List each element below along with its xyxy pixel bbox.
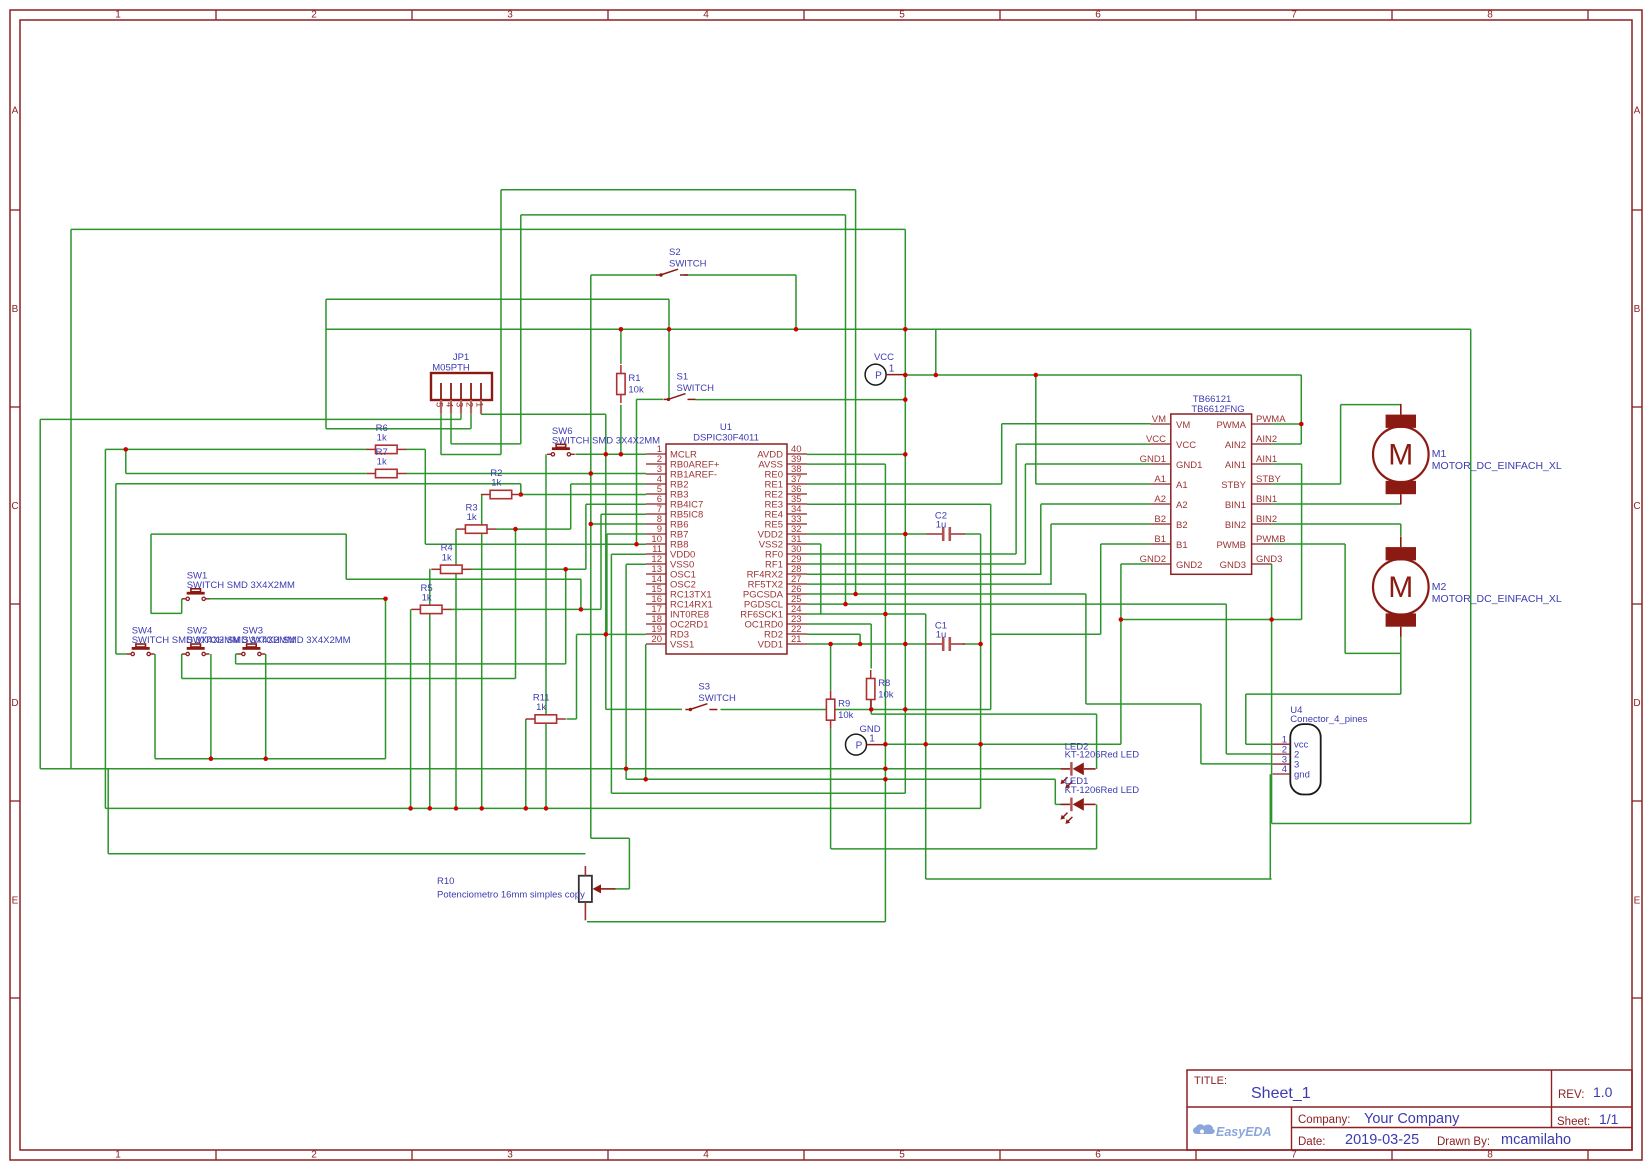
svg-text:1u: 1u — [936, 630, 947, 641]
wires group — [40, 190, 1471, 922]
wire (990.7,504.2)-(990.7,709.5) — [990, 504, 992, 709]
junction at (871.2,709.4) — [869, 707, 874, 712]
wire (480.9,414.2)-(605.8,414.2) — [481, 413, 606, 415]
wire (1271.6,524.0)-(1400.8,524.0) — [1272, 523, 1401, 525]
svg-text:1/1: 1/1 — [1599, 1111, 1619, 1127]
svg-text:B: B — [1634, 304, 1641, 315]
junction at (410.6,808.4) — [408, 806, 413, 811]
wire (807,564.0)-(1025.4,564.0) — [807, 563, 1025, 565]
resistor R1 — [617, 365, 644, 403]
svg-text:2019-03-25: 2019-03-25 — [1345, 1132, 1419, 1148]
wire (606.9,534.0)-(606.9,634.4) — [606, 534, 608, 634]
wire (962.7,644.0)-(980.6,644.0) — [963, 643, 981, 645]
svg-text:1: 1 — [115, 1150, 121, 1161]
wire (566.5,719.0)-(576.5,719.0) — [567, 718, 577, 720]
wire (546.0,454.3)-(546.0,808.4) — [545, 454, 547, 808]
svg-text:5: 5 — [434, 402, 445, 407]
wire (1001.7,423.8)-(1001.7,484.0) — [1001, 424, 1003, 484]
wire (645.7,644.2)-(645.7,779.3) — [645, 644, 647, 779]
wire (871.2,699.3)-(871.2,714.1) — [870, 699, 872, 714]
resistor R6 — [366, 423, 406, 454]
wire (40.2,419.4)-(461.0,419.4) — [40, 418, 461, 420]
svg-text:3: 3 — [454, 402, 465, 407]
svg-text:A: A — [12, 106, 19, 117]
wire (845.5,214.9)-(845.5,604.1) — [845, 215, 847, 604]
svg-text:R9: R9 — [838, 699, 850, 710]
wire (105.4,449.4)-(366.5,449.4) — [105, 448, 366, 450]
junction at (855.6,594) — [853, 592, 858, 597]
svg-text:1u: 1u — [936, 520, 947, 531]
wire (807,454.4)-(905.3,454.4) — [807, 453, 905, 455]
svg-text:mcamilaho: mcamilaho — [1501, 1132, 1571, 1148]
wire (807,534.0)-(926.6,534.0) — [807, 533, 927, 535]
svg-text:PWMB: PWMB — [1216, 540, 1246, 551]
junction at (925.7,744.3) — [923, 742, 928, 747]
wire (481.0,413.8)-(481.0,414.2) — [480, 413, 482, 415]
wire (520.8,214.9)-(520.8,443.9) — [520, 215, 522, 444]
wire (629.4,838.2)-(629.4,888.9) — [628, 838, 630, 889]
wire (1120.9,564.0)-(1150.6,564.0) — [1121, 563, 1151, 565]
wire (807,594.0)-(1085.9,594.0) — [807, 593, 1086, 595]
svg-text:U1: U1 — [720, 422, 732, 433]
svg-text:1k: 1k — [467, 512, 477, 523]
resistor R4 — [431, 543, 471, 574]
wire (1400.8,637.0)-(1400.8,653.4) — [1400, 637, 1402, 653]
wire (980.6,644.0)-(980.6,744.3) — [980, 644, 982, 744]
wire (1025.4,464.0)-(1025.4,564.0) — [1024, 464, 1026, 564]
wire (807,574.2)-(1041.4,574.2) — [807, 573, 1041, 575]
svg-text:1k: 1k — [377, 432, 387, 443]
svg-text:1.0: 1.0 — [1593, 1084, 1613, 1100]
svg-text:P: P — [856, 741, 863, 752]
svg-text:E: E — [12, 896, 19, 907]
junction at (525.8,808.4) — [524, 806, 529, 811]
svg-text:BIN1: BIN1 — [1225, 500, 1246, 511]
junction at (210.9,758.7) — [209, 756, 214, 761]
wire (1271.6,424.0)-(1301.3,424.0) — [1272, 423, 1302, 425]
svg-text:6: 6 — [1095, 10, 1101, 21]
wire (590.8,838.2)-(629.4,838.2) — [591, 837, 630, 839]
svg-text:B2: B2 — [1176, 520, 1188, 531]
wire (1120.9,619.5)-(1301.6,619.5) — [1121, 619, 1302, 621]
wire (1271.6,464.0)-(1301.6,464.0) — [1272, 463, 1302, 465]
junction at (905.3,709.4) — [903, 707, 908, 712]
svg-text:M: M — [1388, 571, 1413, 604]
wire (1340.6,404.6)-(1340.6,484.0) — [1340, 405, 1342, 484]
wire (71,229.4)-(905.3,229.4) — [71, 228, 905, 230]
switch S1 — [664, 371, 715, 401]
junction at (605.8,454.3) — [604, 452, 609, 457]
wire (1040.8,504.0)-(1150.6,504.0) — [1041, 503, 1151, 505]
svg-text:D: D — [1633, 698, 1640, 709]
wire (605.8,414.2)-(605.8,709.4) — [605, 414, 607, 709]
switch SW3 — [238, 626, 351, 656]
wire (346.2,579.3)-(581.2,579.3) — [346, 578, 581, 580]
wire (855.6,189.7)-(855.6,594.0) — [855, 190, 857, 594]
junction at (265.7,758.7) — [263, 756, 268, 761]
wire (585.9,504.2)-(585.9,569.3) — [585, 504, 587, 569]
svg-text:AIN1: AIN1 — [1256, 454, 1277, 465]
wire (470.0,569.3)-(585.9,569.3) — [470, 568, 586, 570]
svg-text:A2: A2 — [1176, 500, 1188, 511]
wire (1200.9,763.9)-(1272.6,763.9) — [1201, 763, 1273, 765]
junction at (429.8,808.4) — [428, 806, 433, 811]
svg-text:Drawn By:: Drawn By: — [1437, 1136, 1490, 1148]
wire (575.4,454.3)-(646.0,454.3) — [575, 453, 646, 455]
svg-text:4: 4 — [703, 1150, 709, 1161]
capacitor C2 — [927, 511, 966, 542]
wire (885.4,464.1)-(885.4,921.8) — [884, 464, 886, 922]
svg-text:GND2: GND2 — [1140, 554, 1166, 565]
wire (925.7,879.0)-(1271.6,879.0) — [926, 878, 1272, 880]
svg-text:M05PTH: M05PTH — [432, 363, 470, 374]
wire (326,329.3)-(1470.7,329.3) — [326, 328, 1471, 330]
wire (450.4,609.4)-(601.0,609.4) — [450, 608, 601, 610]
wire (1340.6,404.6)-(1400.8,404.6) — [1341, 404, 1401, 406]
wire (326,299.2)-(669,299.2) — [326, 298, 669, 300]
wire (695.5,399.6)-(905.3,399.6) — [696, 399, 906, 401]
wire (115.9,483.8)-(520.8,483.8) — [116, 483, 521, 485]
junction at (620.9,454.3) — [619, 452, 624, 457]
wire (326.0,428.8)-(470.6,428.8) — [326, 428, 471, 430]
wire (980.6,744.3)-(980.6,808.4) — [980, 744, 982, 808]
svg-text:M1: M1 — [1432, 448, 1447, 460]
junction at (796,329.3) — [794, 327, 799, 332]
wire (871.2,624.0)-(871.2,668.5) — [870, 624, 872, 669]
wire (925.7,614.0)-(925.7,744.3) — [925, 614, 927, 744]
svg-text:7: 7 — [1291, 10, 1297, 21]
wire (807,584.1)-(1051.8,584.1) — [807, 583, 1052, 585]
LED LED1 — [1061, 798, 1096, 824]
resistor R8 — [867, 670, 894, 708]
junction at (830.6,644) — [828, 642, 833, 647]
svg-text:BIN2: BIN2 — [1225, 520, 1246, 531]
junction at (385.5,598.8) — [383, 597, 388, 602]
wire (125.8,473.5)-(366.2,473.5) — [126, 473, 366, 475]
wire (807,484.0)-(1001.7,484.0) — [807, 483, 1002, 485]
svg-text:1: 1 — [869, 734, 875, 745]
wire (980.6,534.0)-(980.6,644.0) — [980, 534, 982, 644]
wire (590.8,275.0)-(590.8,838.2) — [590, 275, 592, 838]
title block — [1187, 1070, 1632, 1150]
wire (108.2,853.8)-(585.4,853.8) — [108, 853, 585, 855]
wire (820.8,544.0)-(820.8,614.2) — [820, 544, 822, 614]
wire (576.5,634.4)-(576.5,719.0) — [576, 634, 578, 719]
junction at (590.8,524) — [589, 522, 594, 527]
svg-text:AIN1: AIN1 — [1225, 460, 1246, 471]
wire (611.4,793.2)-(905.3,793.2) — [611, 792, 905, 794]
junction at (636.5,544.2) — [634, 542, 639, 547]
wire (1085.9,594.0)-(1085.9,704.0) — [1085, 594, 1087, 704]
svg-text:2: 2 — [311, 10, 317, 21]
wire (501.0,189.7)-(501.0,454.5) — [500, 190, 502, 455]
svg-text:GND3: GND3 — [1220, 560, 1246, 571]
wire (871.2,714.1)-(1096.6,714.1) — [871, 713, 1096, 715]
wire (235.6,654.0)-(237.9,654.0) — [236, 653, 238, 655]
wire (807,464.1)-(885.4,464.1) — [807, 463, 885, 465]
junction at (125.8,449.4) — [124, 447, 129, 452]
wire (105.4,808.4)-(980.6,808.4) — [105, 807, 980, 809]
wire (346.2,534.1)-(346.2,579.3) — [345, 534, 347, 579]
wire (615.5,888.9)-(629.4,888.9) — [616, 888, 630, 890]
wire (611.4,554.3)-(611.4,793.2) — [610, 554, 612, 793]
wire (590.8,524.0)-(646.0,524.0) — [591, 523, 646, 525]
svg-text:2: 2 — [464, 402, 475, 407]
wire (235.6,654.0)-(235.6,663.9) — [235, 654, 237, 664]
capacitor C1 — [927, 621, 966, 652]
wire (210.9,654.0)-(210.9,758.7) — [210, 654, 212, 759]
svg-text:21: 21 — [791, 634, 802, 645]
junction at (1120.9,619.5) — [1119, 617, 1124, 622]
svg-text:R8: R8 — [878, 678, 890, 689]
svg-text:MOTOR_DC_EINFACH_XL: MOTOR_DC_EINFACH_XL — [1432, 593, 1562, 605]
wire (481.7,494.5)-(481.7,808.4) — [481, 495, 483, 809]
wire (1100.7,544.0)-(1100.7,634.2) — [1100, 544, 1102, 634]
wire (385.5,598.8)-(385.5,758.7) — [385, 599, 387, 759]
EasyEDA logo — [1193, 1124, 1215, 1134]
wire (1001.7,423.8)-(1150.6,423.8) — [1002, 423, 1151, 425]
wire (1226.3,754.0)-(1272.6,754.0) — [1226, 753, 1272, 755]
svg-text:4: 4 — [444, 402, 455, 407]
wire (461.0,413.8)-(461.0,419.4) — [460, 414, 462, 420]
svg-text:PWMA: PWMA — [1216, 420, 1246, 431]
wire (576.5,634.4)-(646.0,634.4) — [577, 633, 647, 635]
motor M1 — [1373, 404, 1562, 505]
svg-text:A2: A2 — [1154, 494, 1166, 505]
wire (830.6,644.0)-(830.6,690.7) — [830, 644, 832, 691]
wire (181.7,598.8)-(181.7,613.4) — [181, 599, 183, 614]
switch S2 — [656, 247, 707, 277]
junction at (885.4,779.3) — [883, 777, 888, 782]
wire (520.8,494.5)-(646.0,494.5) — [521, 494, 646, 496]
junction at (520.8,494.5) — [519, 492, 524, 497]
wire (40.2,768.8)-(1060.9,768.8) — [40, 768, 1061, 770]
wire (1400.8,653.4)-(1400.8,694.1) — [1400, 653, 1402, 694]
junction at (885.4,768.8) — [883, 767, 888, 772]
junction at (885.4,744.3) — [883, 742, 888, 747]
junction at (1035.8,375) — [1034, 373, 1039, 378]
wire (601.0,514.2)-(601.0,609.4) — [600, 514, 602, 609]
wire (684.0,275.0)-(796.0,275.0) — [684, 274, 796, 276]
wire (601.0,514.2)-(646.0,514.2) — [601, 513, 646, 515]
svg-text:EasyEDA: EasyEDA — [1216, 1125, 1272, 1139]
svg-text:A: A — [1634, 106, 1641, 117]
resistor R5 — [411, 583, 451, 614]
wire (1016.1,444.1)-(1016.1,554.0) — [1015, 444, 1017, 554]
svg-text:GND3: GND3 — [1256, 554, 1282, 565]
svg-text:M2: M2 — [1432, 581, 1447, 593]
wire (570.7,484.0)-(646.0,484.0) — [571, 483, 646, 485]
wire (1051.0,524.0)-(1150.6,524.0) — [1051, 523, 1151, 525]
svg-text:E: E — [1634, 896, 1641, 907]
wire (1470.7,329.3)-(1470.7,823.5) — [1470, 329, 1472, 823]
svg-text:DSPIC30F4011: DSPIC30F4011 — [693, 433, 759, 444]
junction at (565.7,569.3) — [563, 567, 568, 572]
wire (150.7,613.4)-(181.7,613.4) — [151, 612, 182, 614]
svg-text:A1: A1 — [1176, 480, 1188, 491]
svg-text:B: B — [12, 304, 19, 315]
wire (441.0,413.8)-(441.0,454.5) — [440, 414, 442, 455]
wire (425.3,449.4)-(425.3,544.2) — [424, 449, 426, 544]
wire (807,644.0)-(926.8,644.0) — [807, 643, 927, 645]
svg-text:Your Company: Your Company — [1364, 1111, 1460, 1127]
svg-text:1k: 1k — [422, 592, 432, 603]
wire (520.8,214.9)-(845.5,214.9) — [521, 214, 846, 216]
wire (209.5,598.8)-(385.5,598.8) — [210, 598, 386, 600]
resistor R2 — [481, 468, 521, 499]
wire (1271.6,564.0)-(1271.6,619.5) — [1271, 564, 1273, 620]
junction at (905.3,375) — [903, 373, 908, 378]
wire (1085.9,704.0)-(1200.9,704.0) — [1086, 703, 1201, 705]
wire (620.9,329.3)-(620.9,364.0) — [620, 329, 622, 364]
IC TB6612FNG — [1140, 394, 1287, 574]
wire (1035.8,375.0)-(1035.8,484.0) — [1035, 375, 1037, 484]
wire (1096.6,804.4)-(1096.6,848.9) — [1096, 804, 1098, 849]
wire (1100.7,544.0)-(1150.6,544.0) — [1101, 543, 1151, 545]
svg-text:AIN2: AIN2 — [1256, 434, 1277, 445]
wire (580.9,579.3)-(580.9,609.4) — [580, 579, 582, 609]
wire (1096.6,714.1)-(1096.6,768.9) — [1096, 714, 1098, 769]
resistor R9 — [826, 691, 853, 729]
wire (155.0,654.0)-(155.0,758.7) — [154, 654, 156, 759]
svg-text:STBY: STBY — [1221, 480, 1246, 491]
wire (590.8,275.0)-(656.5,275.0) — [591, 274, 657, 276]
svg-text:S1: S1 — [677, 371, 689, 382]
wire (796.0,275.0)-(796.0,329.3) — [795, 275, 797, 329]
wire (125.8,449.4)-(125.8,473.5) — [125, 449, 127, 473]
svg-text:SWITCH: SWITCH — [698, 693, 736, 704]
svg-text:C: C — [11, 501, 18, 512]
junction at (620.9,329.3) — [619, 327, 624, 332]
switch SW1 — [182, 570, 295, 600]
junction at (580.9,609.4) — [579, 607, 584, 612]
wire (1245.8,694.1)-(1400.8,694.1) — [1246, 693, 1401, 695]
svg-text:1k: 1k — [442, 552, 452, 563]
svg-text:Potenciometro 16mm simples cop: Potenciometro 16mm simples copy — [437, 890, 585, 901]
wire (456.0,529.1)-(456.0,808.4) — [455, 529, 457, 808]
wire (1120.9,564.0)-(1120.9,744.3) — [1120, 564, 1122, 744]
junction at (905.3,399.6) — [903, 397, 908, 402]
wire (501,189.7)-(855.6,189.7) — [501, 189, 856, 191]
junction at (845.5,604.1) — [843, 602, 848, 607]
wire (925.7,744.3)-(925.7,879.0) — [925, 744, 927, 879]
svg-text:10k: 10k — [878, 690, 894, 701]
wire (720.5,709.5)-(990.7,709.5) — [721, 709, 991, 711]
wire (105.4,449.4)-(105.4,808.4) — [104, 449, 106, 808]
wire (115.9,654.0)-(127.2,654.0) — [116, 653, 127, 655]
wire (860.1,634.2)-(860.1,644.0) — [859, 634, 861, 644]
wire (935.8,329.3)-(935.8,375.0) — [935, 329, 937, 375]
wire (605.8,709.4)-(682.0,709.4) — [606, 708, 682, 710]
svg-text:8: 8 — [1487, 10, 1493, 21]
svg-text:4: 4 — [703, 10, 709, 21]
svg-text:5: 5 — [899, 10, 905, 21]
resistor R7 — [366, 447, 406, 478]
LED LED2 — [1061, 762, 1096, 788]
wire (626.1,779.3)-(1055.3,779.3) — [626, 778, 1055, 780]
svg-text:B1: B1 — [1154, 534, 1166, 545]
svg-text:1: 1 — [474, 402, 485, 407]
wire (1016.1,444.1)-(1150.6,444.1) — [1016, 443, 1151, 445]
wire (265.7,654.0)-(265.7,758.7) — [265, 654, 267, 759]
svg-text:SWITCH SMD 3X4X2MM: SWITCH SMD 3X4X2MM — [187, 580, 295, 591]
wire (155.0,758.7)-(385.5,758.7) — [155, 758, 386, 760]
wire (831.0,848.9)-(1096.6,848.9) — [831, 848, 1097, 850]
wire (150.7,613.4)-(150.7,613.4) — [150, 612, 152, 614]
svg-text:B2: B2 — [1154, 514, 1166, 525]
svg-text:1k: 1k — [377, 457, 387, 468]
switch SW6 — [547, 426, 660, 456]
svg-text:S3: S3 — [698, 682, 710, 693]
wire (429.8,568.8)-(429.8,808.4) — [429, 569, 431, 809]
connector U4 Conector_4_pines — [1273, 705, 1368, 795]
wire (1025.4,464.0)-(1150.6,464.0) — [1025, 463, 1150, 465]
wire (1301.6,464.0)-(1301.6,619.5) — [1301, 464, 1303, 620]
svg-text:GND2: GND2 — [1176, 560, 1202, 571]
junction at (860.1,644) — [858, 642, 863, 647]
svg-text:R10: R10 — [437, 876, 454, 887]
svg-text:GND: GND — [859, 724, 880, 735]
wire (636.3,399.4)-(663.0,399.4) — [636, 398, 663, 400]
wire (425.3,544.2)-(646.0,544.2) — [425, 543, 646, 545]
wire (905.3,375.0)-(1301.3,375.0) — [905, 374, 1301, 376]
svg-text:20: 20 — [651, 634, 662, 645]
svg-text:4: 4 — [1282, 764, 1287, 775]
wire (1271.6,444.0)-(1301.3,444.0) — [1272, 443, 1302, 445]
wire (1271.6,544.0)-(1345.1,544.0) — [1272, 543, 1346, 545]
svg-text:SWITCH: SWITCH — [669, 259, 707, 270]
wire (515.5,529.1)-(515.5,678.5) — [515, 529, 517, 678]
junction at (456,808.4) — [454, 806, 459, 811]
wire (1200.9,704.0)-(1200.9,763.9) — [1200, 704, 1202, 764]
svg-text:VCC: VCC — [1176, 440, 1196, 451]
motor M2 — [1373, 536, 1562, 637]
svg-text:1k: 1k — [491, 478, 501, 489]
svg-text:BIN2: BIN2 — [1256, 514, 1277, 525]
wire (626.1,564.3)-(626.1,779.3) — [625, 564, 627, 779]
svg-text:GND1: GND1 — [1176, 460, 1202, 471]
svg-text:M: M — [1388, 438, 1413, 471]
junction at (905.3,644) — [903, 642, 908, 647]
junction at (626.1,768.8) — [624, 767, 629, 772]
wire (40.2,419.4)-(40.2,768.8) — [39, 419, 41, 768]
wire (1245.8,694.1)-(1245.8,744.2) — [1245, 694, 1247, 744]
wire (181.7,654.0)-(181.7,678.5) — [181, 654, 183, 679]
wire (326.0,299.2)-(326.0,428.8) — [325, 299, 327, 429]
potentiometer R10 — [437, 866, 616, 920]
junction at (885.4,614) — [883, 612, 888, 617]
wire (1055.3,804.4)-(1061.0,804.4) — [1055, 803, 1061, 805]
svg-text:GND1: GND1 — [1140, 454, 1166, 465]
svg-text:SWITCH SMD 3X4X2MM: SWITCH SMD 3X4X2MM — [242, 635, 350, 646]
wire (1400.8,524.0)-(1400.8,536.0) — [1400, 524, 1402, 536]
wire (1040.8,504.2)-(1040.8,574.2) — [1040, 504, 1042, 574]
svg-text:P: P — [875, 371, 882, 382]
wire (611.4,554.3)-(646.0,554.3) — [611, 553, 646, 555]
svg-text:C: C — [1633, 501, 1640, 512]
wire (1345.1,653.4)-(1400.8,653.4) — [1345, 652, 1401, 654]
wire (108.2,768.8)-(108.2,853.8) — [107, 769, 109, 854]
wire (807,614.0)-(925.7,614.0) — [807, 613, 926, 615]
svg-text:KT-1206Red LED: KT-1206Red LED — [1065, 750, 1140, 761]
wire (636.5,399.4)-(636.5,544.2) — [636, 399, 638, 544]
wire (606.9,534.0)-(646.0,534.0) — [607, 533, 646, 535]
junction at (1271.6,619.5) — [1269, 617, 1274, 622]
svg-text:AIN2: AIN2 — [1225, 440, 1246, 451]
svg-text:7: 7 — [1291, 1150, 1297, 1161]
wire (1035.8,484.0)-(1150.6,484.0) — [1036, 483, 1151, 485]
wire (565.7,569.3)-(565.7,663.9) — [565, 569, 567, 664]
